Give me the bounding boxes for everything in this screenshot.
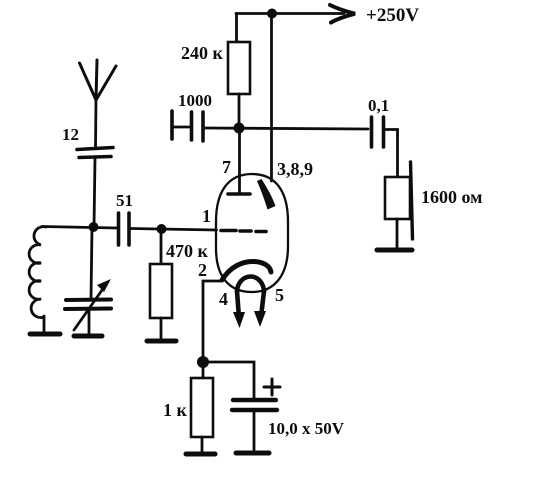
wire top +250V rail bbox=[236, 12, 344, 15]
wire coil to ground bbox=[43, 316, 46, 333]
node below 240k bbox=[234, 123, 245, 134]
svg-text:1: 1 bbox=[202, 206, 211, 226]
ground under 1600 bbox=[377, 248, 412, 253]
wire R1600 to ground bbox=[396, 219, 399, 249]
grid dashes pin 1 bbox=[221, 229, 236, 233]
svg-text:3,8,9: 3,8,9 bbox=[277, 159, 313, 179]
wire input line left bbox=[42, 227, 117, 229]
node top junction bbox=[267, 9, 277, 19]
ground under 470k bbox=[147, 339, 176, 344]
svg-text:51: 51 bbox=[116, 191, 133, 210]
node antenna junction bbox=[89, 222, 99, 232]
node grid junction bbox=[157, 224, 167, 234]
capacitor 51 plates bbox=[117, 213, 121, 245]
cathode arc bbox=[222, 261, 271, 280]
wire junction to R1k bbox=[202, 362, 205, 378]
plus sign bbox=[264, 386, 280, 389]
tube envelope bbox=[216, 174, 288, 292]
wire terminal to C1000 bbox=[172, 126, 189, 129]
wire junction to electrolytic bbox=[203, 362, 254, 399]
node cathode junction bbox=[197, 356, 209, 368]
heater lead 5 bbox=[261, 291, 264, 317]
anode plate bar pin 7 bbox=[228, 192, 250, 196]
stroke behind 1600 resistor bbox=[411, 162, 413, 239]
ground under 1k bbox=[186, 452, 215, 457]
variable capacitor arrow bbox=[74, 283, 107, 330]
svg-text:10,0 x 50V: 10,0 x 50V bbox=[268, 419, 345, 438]
variable capacitor plates bbox=[66, 298, 111, 303]
svg-text:1000: 1000 bbox=[178, 91, 212, 110]
arrow +250V bbox=[330, 5, 355, 23]
wire varcap to ground bbox=[88, 310, 91, 334]
inductor coil bbox=[29, 227, 46, 318]
wire R240k bottom to node bbox=[238, 94, 241, 128]
svg-text:5: 5 bbox=[275, 285, 284, 305]
resistor 240 k body bbox=[228, 42, 250, 94]
wire C12 down to node bbox=[94, 158, 95, 227]
wire C0,1 to down corner bbox=[385, 130, 398, 178]
svg-text:240 к: 240 к bbox=[181, 43, 224, 63]
wire coupling line y=128 bbox=[205, 128, 368, 129]
electrode stroke at 3,8,9 bbox=[257, 179, 276, 210]
wire from rail down to R 240k bbox=[235, 14, 238, 43]
wire junction to R470k bbox=[160, 229, 163, 264]
capacitor 1000 terminal bar bbox=[170, 111, 174, 139]
svg-text:0,1: 0,1 bbox=[368, 96, 389, 115]
electrolytic capacitor plates bbox=[233, 398, 276, 402]
wire pin 2 bbox=[203, 281, 221, 362]
resistor 1600 om body bbox=[385, 177, 410, 219]
ground under coil bbox=[30, 332, 60, 337]
heater lead 4 bbox=[237, 291, 239, 318]
resistor 470 k body bbox=[150, 264, 172, 318]
svg-text:4: 4 bbox=[219, 289, 228, 309]
svg-text:7: 7 bbox=[222, 157, 231, 177]
capacitor 0,1 plates bbox=[370, 117, 374, 147]
svg-text:+250V: +250V bbox=[366, 5, 419, 26]
wire 3,8,9 vertical from rail to tube bbox=[270, 14, 273, 182]
ground under variable cap bbox=[74, 334, 102, 339]
svg-text:470 к: 470 к bbox=[166, 241, 209, 261]
svg-text:12: 12 bbox=[62, 125, 79, 144]
heater arc bbox=[237, 277, 264, 293]
resistor 1 k body bbox=[191, 378, 213, 437]
svg-text:1600 ом: 1600 ом bbox=[421, 187, 482, 207]
capacitor 1000 plates bbox=[190, 112, 194, 140]
antenna bbox=[80, 63, 97, 100]
wire electrolytic to ground bbox=[253, 411, 256, 452]
capacitor 12 plates bbox=[77, 148, 113, 150]
pin 7 wire bbox=[238, 128, 241, 192]
ground under electrolytic bbox=[236, 451, 269, 456]
wire R1k to ground bbox=[201, 437, 204, 453]
svg-text:2: 2 bbox=[198, 260, 207, 280]
wire junction down to variable cap bbox=[91, 227, 92, 299]
wire antenna down bbox=[94, 99, 97, 148]
wire R470k to ground bbox=[160, 318, 163, 341]
svg-text:1 к: 1 к bbox=[163, 400, 188, 420]
